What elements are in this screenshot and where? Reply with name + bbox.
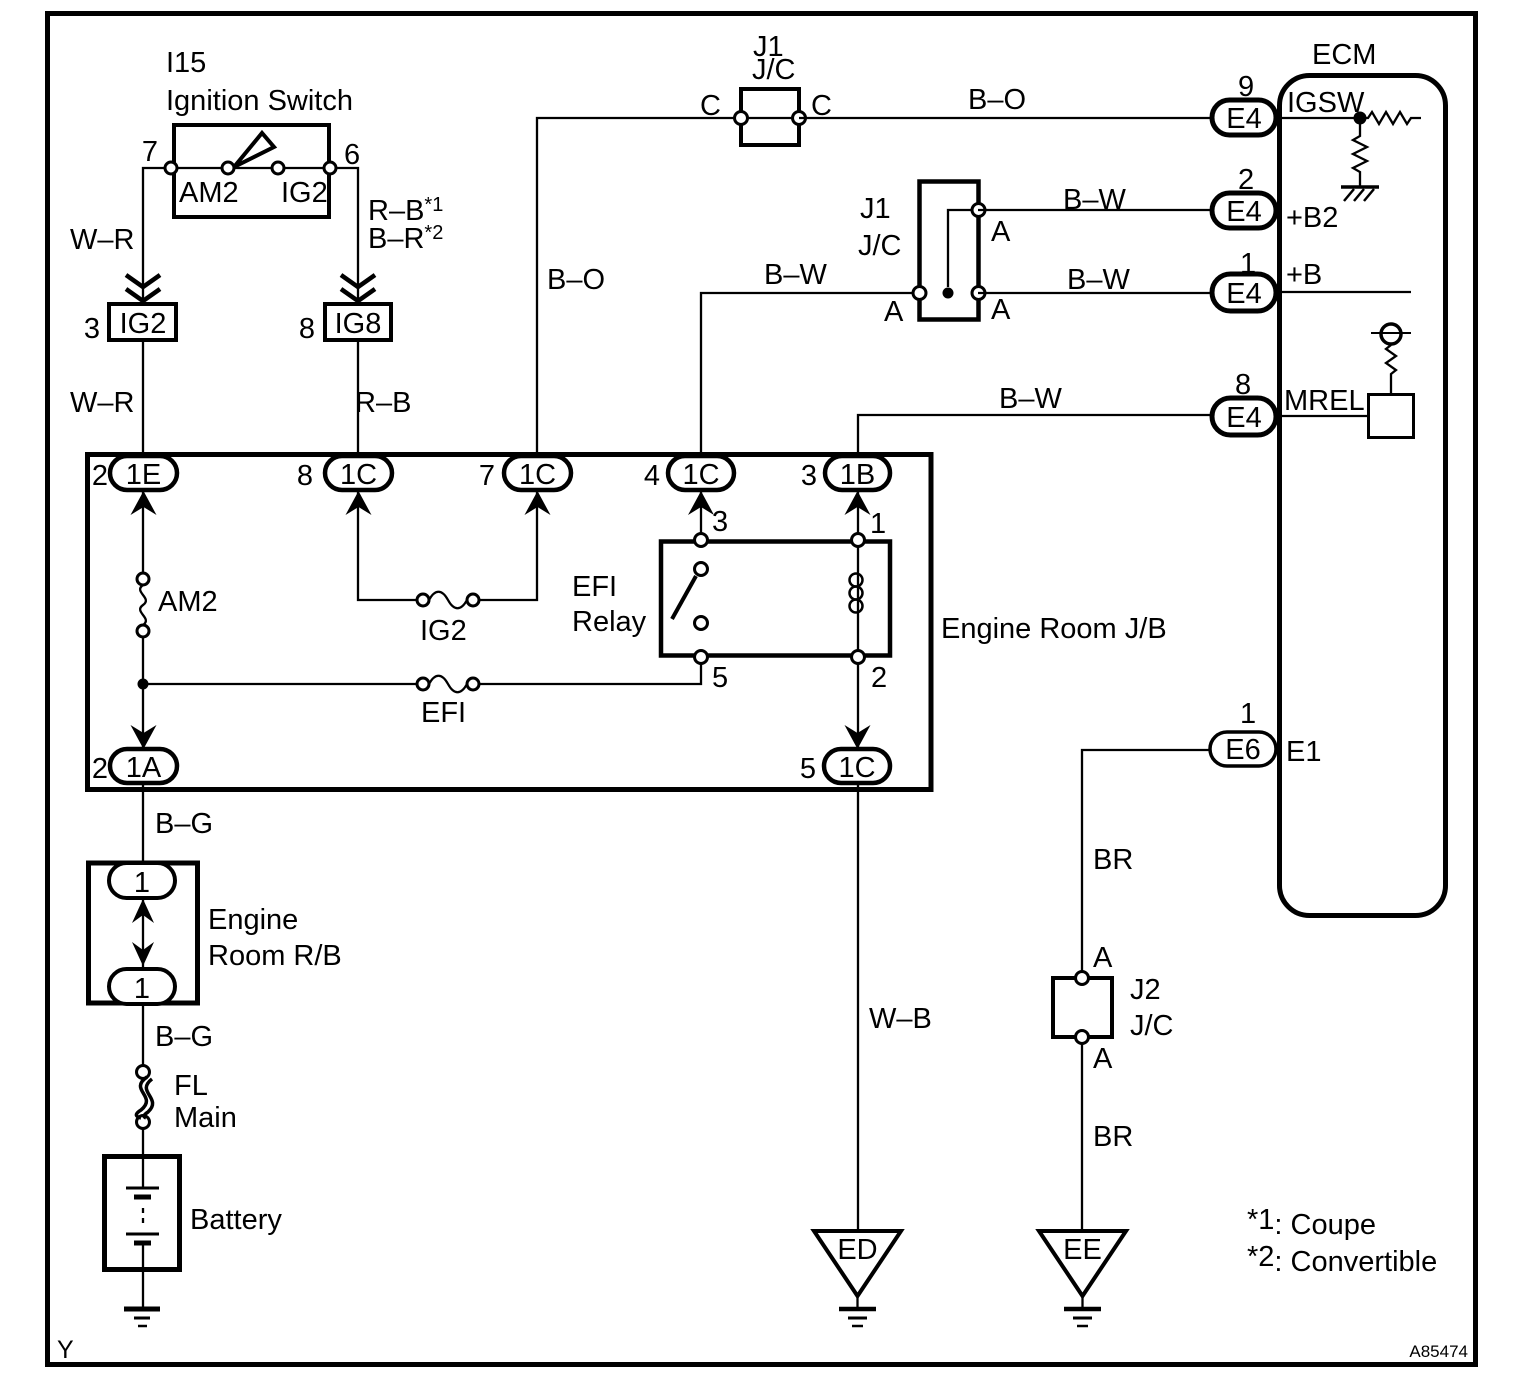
- wire 1C(8) to fuse IG2: [358, 490, 417, 600]
- connector E4 pin 9: [1212, 71, 1276, 135]
- svg-text:B–W: B–W: [764, 259, 827, 291]
- svg-text:IG2: IG2: [120, 308, 167, 340]
- svg-text:1: 1: [1240, 248, 1256, 280]
- svg-text:1B: 1B: [840, 459, 875, 491]
- svg-text:W–B: W–B: [869, 1003, 932, 1035]
- svg-text:E4: E4: [1226, 103, 1261, 135]
- relay pin 2: [852, 651, 888, 695]
- wire B-O J1 to ECM E4 pin 9: [799, 117, 1212, 119]
- arrow down R/B: [132, 942, 154, 966]
- terminal A upper: [972, 204, 1011, 249]
- ECM box: [1280, 39, 1446, 916]
- svg-text:Engine: Engine: [208, 904, 298, 936]
- junction dot EFI: [138, 679, 149, 690]
- svg-text:1: 1: [870, 508, 886, 540]
- terminal A left: [884, 287, 926, 329]
- svg-text:B–O: B–O: [547, 264, 605, 296]
- connector 1A pin 2: [92, 749, 177, 785]
- connector E4 pin 1: [1212, 248, 1276, 311]
- resistor to ground: [1353, 124, 1367, 186]
- svg-text:4: 4: [644, 460, 660, 492]
- ignition switch pin 7: [142, 136, 177, 174]
- wire B-O J1 to J/B 1C(7): [537, 118, 741, 456]
- svg-text:W–R: W–R: [70, 387, 134, 419]
- svg-text:IG2: IG2: [281, 177, 328, 209]
- svg-text:1C: 1C: [838, 752, 875, 784]
- ground EE: [1039, 1231, 1126, 1326]
- svg-text:1A: 1A: [126, 752, 162, 784]
- arrow into 1A: [131, 725, 157, 749]
- ignition switch pin 6: [324, 139, 360, 174]
- wire BR J2 to EE ground: [1081, 1043, 1083, 1231]
- relay switch blade: [672, 576, 696, 619]
- wire junction to fuse EFI: [143, 683, 417, 685]
- svg-text:Battery: Battery: [190, 1204, 282, 1236]
- svg-text:A: A: [991, 216, 1011, 248]
- junction dot A: [943, 288, 954, 299]
- svg-text:1E: 1E: [126, 459, 161, 491]
- svg-text:B–W: B–W: [999, 383, 1062, 415]
- relay pin 1: [852, 508, 887, 547]
- ground battery: [124, 1309, 160, 1326]
- ignition switch IG2 contact: [272, 162, 284, 174]
- svg-text:Relay: Relay: [572, 606, 647, 638]
- ground ED: [814, 1231, 901, 1326]
- svg-text:Ignition Switch: Ignition Switch: [166, 85, 353, 117]
- relay pin 3: [695, 506, 729, 547]
- svg-text:J/C: J/C: [752, 54, 796, 86]
- svg-text:J2: J2: [1130, 974, 1161, 1006]
- fuse IG8 (8): [299, 304, 391, 345]
- svg-text:B–O: B–O: [968, 84, 1026, 116]
- svg-text:B–W: B–W: [1063, 184, 1126, 216]
- svg-text:BR: BR: [1093, 1121, 1133, 1153]
- connector E4 pin 8: [1212, 369, 1276, 435]
- svg-text:7: 7: [479, 460, 495, 492]
- svg-text:B–G: B–G: [155, 808, 213, 840]
- arrow into 1E: [131, 491, 157, 515]
- svg-text:Engine Room J/B: Engine Room J/B: [941, 613, 1167, 645]
- connector 1E pin 2: [92, 456, 177, 492]
- svg-text:EE: EE: [1063, 1234, 1102, 1266]
- svg-text:E6: E6: [1225, 734, 1260, 766]
- svg-text:AM2: AM2: [179, 177, 239, 209]
- svg-text:3: 3: [84, 313, 100, 345]
- net MREL: [1282, 385, 1367, 417]
- svg-text:8: 8: [297, 460, 313, 492]
- svg-text:A: A: [991, 294, 1011, 326]
- wire FL to battery: [142, 1128, 144, 1154]
- relay coil: [857, 546, 859, 650]
- connector 1C pin 4: [644, 456, 734, 492]
- relay pin 5: [695, 651, 729, 695]
- wire B-G 1A to Engine Room R/B: [142, 783, 144, 861]
- svg-text:5: 5: [800, 753, 816, 785]
- svg-text:EFI: EFI: [421, 697, 466, 729]
- svg-text:Room R/B: Room R/B: [208, 940, 342, 972]
- connector 1C pin 5: [800, 749, 890, 785]
- svg-text:ED: ED: [837, 1234, 877, 1266]
- svg-text:B–G: B–G: [155, 1021, 213, 1053]
- Engine Room R/B box: [89, 863, 342, 1003]
- svg-text:Main: Main: [174, 1102, 237, 1134]
- arrow into 1C(8): [346, 491, 372, 515]
- svg-text:EFI: EFI: [572, 571, 617, 603]
- svg-text:1: 1: [1240, 698, 1256, 730]
- svg-text:A: A: [1093, 942, 1113, 974]
- fuse IG2 J/B: [417, 592, 479, 647]
- svg-text:A: A: [1093, 1043, 1113, 1075]
- wire B-W J1 upper to ECM E4 pin 2: [978, 209, 1212, 211]
- wire B-G R/B to FL Main: [142, 1005, 144, 1066]
- wire B-W J/B 1B(3) to ECM E4 pin 8 MREL: [858, 415, 1212, 456]
- net +B: [1282, 259, 1411, 292]
- EFI relay U1: [572, 542, 890, 656]
- terminal C right: [793, 90, 832, 125]
- fuse EFI: [417, 676, 479, 729]
- svg-text:2: 2: [1238, 164, 1254, 196]
- svg-text:IGSW: IGSW: [1287, 87, 1365, 119]
- wire R-B pin 6 to fuse IG8: [336, 168, 358, 302]
- svg-text:J/C: J/C: [1130, 1010, 1174, 1042]
- svg-text:2: 2: [871, 662, 887, 694]
- Engine Room J/B box: [88, 455, 1167, 790]
- svg-text:3: 3: [801, 460, 817, 492]
- svg-text:R–B: R–B: [355, 387, 411, 419]
- svg-text:1C: 1C: [682, 459, 719, 491]
- svg-text:B–W: B–W: [1067, 264, 1130, 296]
- wire 1B(3) to relay pin 1: [857, 490, 859, 534]
- wire B-W J1 to ECM E4 pin 1: [978, 292, 1212, 294]
- wire 1C(4) to relay pin 3: [700, 490, 702, 534]
- svg-text:+B2: +B2: [1286, 202, 1338, 234]
- svg-text:2: 2: [92, 753, 108, 785]
- svg-text:J1: J1: [860, 193, 891, 225]
- wire W-B 1C(5) to ED ground: [857, 783, 859, 1231]
- wire fuse AM2 to junction: [142, 637, 144, 749]
- svg-text:*2: Convertible: *2: Convertible: [1247, 1241, 1437, 1278]
- R/B connector 1 top: [109, 863, 175, 899]
- junction connector J1 J/C (lower): [858, 182, 979, 320]
- wire W-R pin 7 to fuse IG2: [143, 168, 165, 302]
- arrow into 1C(5): [845, 725, 871, 749]
- svg-text:6: 6: [344, 139, 360, 171]
- arrow up R/B: [132, 899, 154, 923]
- ground ECM internal: [1341, 187, 1379, 201]
- R/B internal wire: [142, 898, 144, 969]
- svg-text:E4: E4: [1226, 196, 1261, 228]
- J2 terminal A upper: [1076, 942, 1114, 985]
- arrow into 1C(4): [688, 491, 714, 515]
- wire BR E6 to J2: [1082, 750, 1210, 978]
- wire W-R fuse IG2 to J/B 1E: [142, 342, 144, 456]
- R/B connector 1 bottom: [109, 969, 175, 1005]
- svg-text:I15: I15: [166, 47, 206, 79]
- svg-text:MREL: MREL: [1284, 385, 1365, 417]
- MREL driver switch symbol: [1369, 324, 1414, 438]
- svg-text:*1: Coupe: *1: Coupe: [1247, 1204, 1376, 1241]
- fuse IG2 (3): [84, 304, 176, 345]
- svg-text:E1: E1: [1286, 736, 1321, 768]
- svg-text:8: 8: [1235, 369, 1251, 401]
- connector chevrons into fuse IG8: [341, 275, 375, 301]
- svg-text:IG8: IG8: [335, 308, 382, 340]
- net IGSW: [1282, 87, 1365, 119]
- arrow into 1B(3): [845, 491, 871, 515]
- svg-text:J/C: J/C: [858, 230, 902, 262]
- svg-text:3: 3: [712, 506, 728, 538]
- terminal A right: [972, 287, 1011, 327]
- svg-text:A: A: [884, 296, 904, 328]
- connector 1B pin 3: [801, 456, 890, 492]
- terminal C left: [700, 90, 748, 125]
- svg-text:9: 9: [1238, 71, 1254, 103]
- svg-text:1: 1: [134, 867, 150, 899]
- svg-text:1C: 1C: [519, 459, 556, 491]
- junction connector J1 J/C (top): [741, 31, 799, 145]
- svg-text:+B: +B: [1286, 259, 1322, 291]
- svg-text:E4: E4: [1226, 278, 1261, 310]
- arrow into 1C(7): [525, 491, 551, 515]
- ignition switch AM2 contact: [222, 162, 234, 174]
- svg-text:BR: BR: [1093, 844, 1133, 876]
- svg-text:IG2: IG2: [420, 615, 467, 647]
- wire relay pin 2 to 1C(5): [857, 663, 859, 749]
- wire R-B fuse IG8 to J/B 1C: [357, 342, 359, 456]
- svg-text:5: 5: [712, 662, 728, 694]
- wire 1E to fuse AM2: [142, 490, 144, 573]
- svg-text:A85474: A85474: [1409, 1342, 1468, 1361]
- svg-text:ECM: ECM: [1312, 39, 1376, 71]
- wire fuse IG2 to 1C(7): [479, 490, 537, 600]
- junction connector J2 J/C: [1053, 974, 1174, 1042]
- svg-text:1: 1: [134, 973, 150, 1005]
- junction dot IGSW: [1354, 112, 1367, 125]
- svg-text:8: 8: [299, 313, 315, 345]
- svg-text:AM2: AM2: [158, 586, 218, 618]
- ignition switch I15: [166, 47, 353, 217]
- svg-text:E4: E4: [1226, 402, 1261, 434]
- svg-text:7: 7: [142, 136, 158, 168]
- connector E6 pin 1: [1210, 698, 1276, 766]
- fusible link FL Main: [136, 1066, 236, 1135]
- svg-text:FL: FL: [174, 1070, 208, 1102]
- wire B-W J/B 1C(4) to J1: [701, 293, 919, 456]
- resistor horizontal pull-up: [1360, 112, 1421, 124]
- connector chevrons into fuse IG2: [126, 275, 160, 301]
- svg-text:C: C: [700, 90, 721, 122]
- svg-text:Y: Y: [57, 1336, 74, 1364]
- battery: [105, 1154, 283, 1308]
- svg-text:1C: 1C: [340, 459, 377, 491]
- wire fuse EFI to relay pin 5: [479, 663, 701, 684]
- relay switch contact: [695, 563, 708, 576]
- fuse AM2: [137, 573, 218, 637]
- svg-text:2: 2: [92, 460, 108, 492]
- svg-text:W–R: W–R: [70, 224, 134, 256]
- J2 terminal A lower: [1076, 1031, 1114, 1076]
- connector 1C pin 7: [479, 456, 571, 492]
- connector 1C pin 8: [297, 456, 392, 492]
- relay switch lower contact: [695, 617, 708, 630]
- connector E4 pin 2: [1212, 164, 1276, 228]
